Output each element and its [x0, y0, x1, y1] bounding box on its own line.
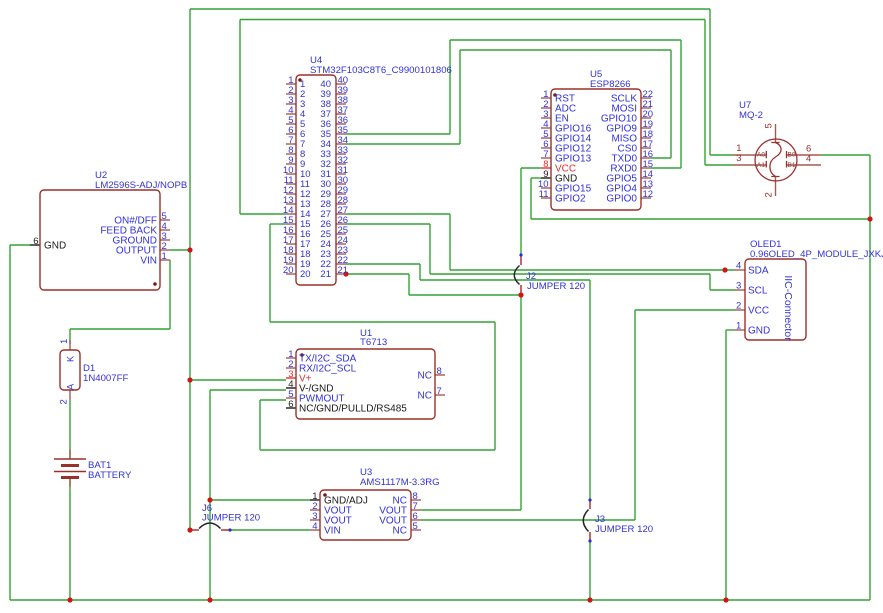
svg-text:JUMPER 120: JUMPER 120 [527, 281, 585, 292]
svg-text:4: 4 [806, 154, 811, 165]
svg-text:21: 21 [320, 269, 331, 280]
svg-text:11: 11 [539, 189, 549, 200]
svg-text:7: 7 [437, 386, 442, 397]
svg-text:2: 2 [59, 399, 70, 404]
svg-text:AMS1117M-3.3RG: AMS1117M-3.3RG [360, 477, 440, 488]
svg-text:4: 4 [736, 261, 741, 272]
svg-text:MQ-2: MQ-2 [739, 110, 763, 121]
svg-text:GND: GND [748, 325, 770, 336]
svg-text:A: A [66, 383, 76, 390]
svg-text:1: 1 [736, 321, 741, 332]
svg-text:B0: B0 [788, 152, 796, 159]
svg-text:VIN: VIN [324, 525, 341, 536]
svg-text:GPIO0: GPIO0 [606, 193, 637, 204]
svg-text:1: 1 [59, 339, 70, 344]
svg-text:BATTERY: BATTERY [88, 470, 132, 481]
svg-text:B1: B1 [788, 162, 796, 169]
svg-text:VIN: VIN [140, 255, 157, 266]
svg-text:3: 3 [736, 281, 741, 292]
svg-text:NC: NC [393, 525, 407, 536]
svg-text:20: 20 [300, 269, 311, 280]
svg-text:1N4007FF: 1N4007FF [83, 373, 128, 384]
svg-text:GND: GND [44, 240, 66, 251]
svg-text:3: 3 [736, 153, 741, 164]
svg-text:8: 8 [437, 366, 442, 377]
svg-text:GPIO2: GPIO2 [555, 193, 586, 204]
svg-text:ESP8266: ESP8266 [590, 79, 631, 90]
svg-text:JUMPER 120: JUMPER 120 [202, 513, 260, 524]
svg-text:2: 2 [736, 301, 741, 312]
svg-text:STM32F103C8T6_C9900101806: STM32F103C8T6_C9900101806 [310, 65, 452, 76]
svg-text:LM2596S-ADJ/NOPB: LM2596S-ADJ/NOPB [95, 180, 187, 191]
svg-text:1: 1 [162, 251, 167, 262]
svg-text:21: 21 [338, 265, 349, 276]
svg-text:NC: NC [418, 370, 432, 381]
svg-text:NC/GND/PULLD/RS485: NC/GND/PULLD/RS485 [299, 403, 407, 414]
svg-text:0.96OLED_4P_MODULE_JXKJ: 0.96OLED_4P_MODULE_JXKJ [750, 249, 883, 260]
svg-text:6: 6 [33, 236, 38, 247]
svg-text:SCL: SCL [748, 285, 768, 296]
svg-text:20: 20 [283, 265, 294, 276]
svg-text:NC: NC [418, 390, 432, 401]
svg-text:T6713: T6713 [360, 337, 387, 348]
svg-text:A0: A0 [757, 152, 765, 159]
svg-text:K: K [66, 355, 76, 362]
svg-text:VCC: VCC [748, 305, 769, 316]
svg-text:JUMPER 120: JUMPER 120 [595, 524, 653, 535]
svg-text:SDA: SDA [748, 265, 769, 276]
svg-text:6: 6 [288, 399, 293, 410]
svg-text:4: 4 [312, 521, 317, 532]
svg-text:2: 2 [764, 192, 775, 197]
svg-text:12: 12 [643, 189, 654, 200]
svg-text:5: 5 [764, 123, 775, 128]
svg-text:A1: A1 [757, 162, 765, 169]
svg-text:IIC-Connector: IIC-Connector [782, 275, 794, 341]
svg-text:5: 5 [413, 521, 418, 532]
